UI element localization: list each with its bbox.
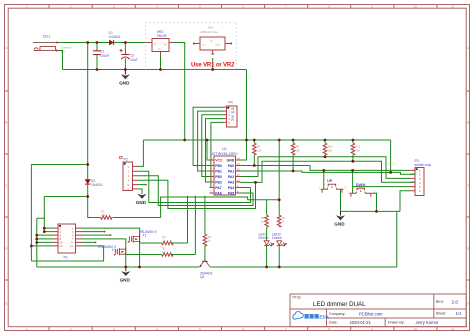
wire P1 pin6 to bus bbox=[37, 234, 53, 236]
svg-text:Green: Green bbox=[272, 236, 282, 240]
wire bottom rail right of Q1 bbox=[210, 266, 397, 268]
svg-text:R: R bbox=[231, 118, 234, 122]
svg-text:R7: R7 bbox=[101, 210, 105, 214]
wire D2 cathode down bbox=[87, 184, 89, 196]
svg-text:Connect?: Connect? bbox=[61, 46, 73, 50]
wire R2 to drop bbox=[171, 242, 187, 244]
wire P1 pin8 to bus bbox=[37, 238, 53, 240]
svg-text:TITLE:: TITLE: bbox=[292, 296, 302, 300]
svg-text:UP: UP bbox=[327, 178, 333, 183]
wire P2 pin5 stub bbox=[137, 184, 145, 186]
wire bus vertical x44 bbox=[43, 197, 45, 232]
svg-text:A: A bbox=[467, 46, 469, 50]
wire T1 gate line bbox=[140, 242, 162, 244]
wire P1 pin10 to bus bbox=[37, 241, 53, 243]
svg-text:R8: R8 bbox=[296, 145, 300, 149]
svg-text:P4: P4 bbox=[229, 101, 233, 105]
wire P2 pin4 wrap bbox=[137, 180, 256, 208]
svg-text:C1: C1 bbox=[100, 50, 104, 54]
connector P1 bbox=[53, 224, 82, 260]
wire wrap line A below U1 bbox=[161, 197, 280, 218]
svg-text:LED dimmer DUAL: LED dimmer DUAL bbox=[313, 301, 366, 308]
svg-text:P2: P2 bbox=[124, 157, 128, 161]
wire P1 pin4 to bus bbox=[44, 231, 52, 233]
svg-text:100: 100 bbox=[101, 213, 106, 217]
wire P1 pin9 stub bbox=[81, 241, 95, 243]
wire DC1 minus drop to ground rail bbox=[57, 51, 63, 70]
svg-text:PB1: PB1 bbox=[215, 169, 222, 173]
wire P4 pin1 to U1 PB0 bbox=[193, 107, 224, 165]
svg-text:PB0: PB0 bbox=[215, 164, 222, 168]
svg-text:R3: R3 bbox=[162, 247, 166, 251]
wire button ground run bbox=[341, 210, 401, 212]
svg-text:2.0: 2.0 bbox=[452, 300, 459, 305]
svg-text:D: D bbox=[467, 247, 469, 251]
capacitor C2 10uF polarized bbox=[120, 43, 138, 70]
resistor R6 bbox=[277, 215, 285, 227]
svg-text:100nF: 100nF bbox=[100, 54, 110, 58]
svg-text:R6: R6 bbox=[282, 216, 286, 220]
svg-text:1/1: 1/1 bbox=[456, 311, 462, 316]
svg-text:ATTINY84-20PU: ATTINY84-20PU bbox=[212, 152, 238, 156]
wire Q1 base drop bbox=[204, 196, 206, 234]
connector P3 switch exp bbox=[410, 159, 431, 196]
wire left feed at 164 bbox=[31, 164, 87, 166]
resistor R5 bbox=[261, 215, 268, 227]
ground symbol under P2 bbox=[136, 194, 147, 205]
wire P1 pin3 stub bbox=[81, 231, 104, 233]
wire P3 pin6 to ground run bbox=[400, 191, 410, 212]
svg-text:12: 12 bbox=[59, 244, 63, 248]
wire P1 pin11 to bottom loop bbox=[81, 245, 104, 247]
wire frame tick marks top bbox=[49, 5, 437, 9]
svg-text:10: 10 bbox=[414, 327, 418, 331]
svg-text:G: G bbox=[211, 39, 213, 43]
wire raw 12V drop to D2 bbox=[87, 43, 89, 180]
ground symbol under T2 bbox=[120, 267, 131, 282]
svg-text:GND: GND bbox=[119, 81, 130, 86]
wire LED riser 1 bbox=[266, 200, 268, 215]
svg-text:AMS1117-5.0a: AMS1117-5.0a bbox=[201, 30, 218, 34]
svg-text:G: G bbox=[159, 47, 161, 51]
svg-text:78L05: 78L05 bbox=[157, 34, 167, 38]
wire left bus vertical bbox=[30, 165, 32, 262]
wire rail end drop to P3 net bbox=[390, 140, 392, 172]
wire R3 to drop bbox=[171, 254, 195, 256]
resistor R7 bbox=[101, 210, 112, 220]
svg-text:U1: U1 bbox=[222, 147, 227, 151]
wire ground run to emitter rail bbox=[396, 211, 398, 267]
wire P4 pin3 to U1 PB3 bbox=[202, 115, 224, 177]
LED LED1 bbox=[264, 227, 274, 267]
svg-text:PA3: PA3 bbox=[228, 180, 234, 184]
svg-text:C: C bbox=[5, 184, 7, 188]
svg-text:Company:: Company: bbox=[329, 312, 345, 316]
wire P1 pin12 to bus bbox=[31, 245, 52, 247]
wire U1 PA2 net to P3 pin3 bbox=[241, 157, 411, 179]
svg-text:10uF: 10uF bbox=[130, 58, 138, 62]
svg-text:Drawn By:: Drawn By: bbox=[388, 321, 405, 325]
svg-text:R9: R9 bbox=[208, 235, 212, 239]
resistor R8 10k bbox=[291, 140, 300, 171]
switch UP bbox=[318, 178, 346, 193]
EasyEDA logo cloud bbox=[293, 312, 303, 320]
regulator VR2 78L05 bbox=[146, 30, 174, 56]
resistor R3 gate T2 bbox=[162, 247, 174, 257]
dashed selection box around regulators bbox=[146, 23, 237, 70]
svg-text:2020-01-21: 2020-01-21 bbox=[350, 320, 372, 325]
wire VR1 ground tail to rail bbox=[212, 58, 214, 70]
wire VR2 ground to rail bbox=[160, 56, 162, 70]
wire R7 to wrap riser bbox=[113, 217, 161, 219]
wire bus vertical x37 bbox=[36, 218, 38, 267]
svg-text:PA6: PA6 bbox=[215, 191, 221, 195]
svg-text:REV:: REV: bbox=[436, 300, 444, 304]
IC U1 ATTINY84-20PU bbox=[210, 147, 241, 195]
svg-text:10k: 10k bbox=[296, 148, 301, 152]
diode D2 1N4001 bbox=[85, 179, 103, 187]
switch DWN bbox=[347, 182, 375, 197]
wire T2 gate line bbox=[126, 254, 162, 256]
svg-text:C2: C2 bbox=[130, 53, 134, 57]
title block frame bbox=[290, 294, 466, 327]
svg-text:DC1: DC1 bbox=[43, 34, 50, 38]
wire UP right to ground run bbox=[340, 189, 342, 211]
svg-text:E: E bbox=[467, 302, 469, 306]
wire frame tick marks left bbox=[5, 91, 9, 280]
resistor R4 10k bbox=[253, 140, 262, 166]
wire DWN net to P3 pin5 bbox=[353, 186, 410, 188]
wire frame tick marks right bbox=[466, 91, 469, 280]
svg-text:PB2: PB2 bbox=[215, 180, 222, 184]
capacitor C1 100nF bbox=[93, 43, 110, 70]
wire 196 link bbox=[44, 196, 87, 198]
wire DC1 plus to D1 anode bbox=[57, 42, 109, 44]
transistor Q1 2N4401 bbox=[199, 261, 212, 279]
svg-text:PB3: PB3 bbox=[215, 175, 222, 179]
svg-text:R10: R10 bbox=[328, 145, 333, 149]
diode D1 1N4001 bbox=[109, 31, 121, 45]
wire P4 pin2 to U1 PB1 bbox=[198, 111, 224, 171]
svg-text:VCC: VCC bbox=[215, 158, 223, 162]
wire P4 pin4 to U1 PB2 bbox=[206, 119, 224, 182]
svg-text:PA1: PA1 bbox=[228, 169, 234, 173]
wire P2 pin3 wrap to U1 PA5 bbox=[137, 176, 253, 206]
ground symbol under buttons bbox=[334, 211, 345, 226]
svg-text:Out: Out bbox=[216, 42, 220, 46]
wire VCC rail to U1 VCC bbox=[207, 140, 210, 160]
wire T1 source to rail bbox=[139, 243, 141, 267]
wire ground rail drop to U1 GND bbox=[241, 70, 247, 161]
svg-text:E: E bbox=[5, 302, 7, 306]
wire U1 PA3 net to P3 pin4 bbox=[241, 161, 416, 182]
svg-text:Sheet:: Sheet: bbox=[436, 312, 446, 316]
svg-text:C: C bbox=[467, 184, 469, 188]
wire DWN right to ground run bbox=[372, 193, 376, 211]
wire VCC rail bbox=[143, 139, 390, 141]
wire P2 pin2 wrap to U1 PA4 bbox=[137, 171, 251, 202]
svg-text:B: B bbox=[5, 121, 7, 125]
wire P1 pin1 to T1 drain bbox=[81, 228, 140, 235]
svg-text:PA7: PA7 bbox=[215, 186, 221, 190]
resistor R9 bbox=[203, 234, 211, 246]
title block divider lines bbox=[290, 294, 466, 327]
wire D2 to R7 bbox=[88, 197, 101, 218]
wire frame tick marks bottom bbox=[49, 327, 437, 331]
wire P4 pin5 to U1 PA7 bbox=[210, 122, 224, 187]
svg-text:T1: T1 bbox=[143, 233, 147, 237]
svg-text:GND: GND bbox=[120, 277, 131, 282]
LED LED2 bbox=[277, 241, 287, 267]
wire U1 PA4 stub to wrap bbox=[241, 187, 251, 189]
EasyEDA logo text bbox=[305, 314, 309, 319]
svg-text:R2: R2 bbox=[162, 235, 166, 239]
wire T1 gate drop bbox=[187, 196, 189, 243]
wire VR2 output to VCC rail drop bbox=[174, 43, 185, 141]
svg-text:10k: 10k bbox=[356, 148, 361, 152]
wire ground rail top bbox=[63, 69, 247, 71]
svg-text:D: D bbox=[5, 247, 7, 251]
resistor R2 gate T1 bbox=[162, 235, 174, 245]
wire P1 pin5 stub bbox=[81, 234, 110, 236]
svg-text:R11: R11 bbox=[356, 145, 361, 149]
svg-text:10k: 10k bbox=[257, 148, 262, 152]
svg-text:Q1: Q1 bbox=[200, 275, 205, 279]
wire U1 PA0 net to P3 pin1 bbox=[241, 166, 411, 171]
connector DC1 bbox=[33, 34, 72, 53]
svg-text:VR1: VR1 bbox=[208, 26, 214, 30]
resistor R10 10k bbox=[323, 140, 333, 157]
svg-text:1N4001: 1N4001 bbox=[91, 183, 103, 187]
wire T2 source to rail bbox=[125, 256, 127, 267]
node junction dots bbox=[86, 41, 89, 44]
svg-text:Use VR1 or VR2: Use VR1 or VR2 bbox=[191, 62, 235, 68]
svg-text:10: 10 bbox=[414, 5, 418, 9]
wire bottom loop bbox=[31, 246, 103, 261]
svg-text:11: 11 bbox=[451, 5, 454, 9]
connector P2 ISP bbox=[120, 157, 138, 192]
svg-text:11: 11 bbox=[70, 244, 73, 248]
svg-text:P1: P1 bbox=[64, 256, 68, 260]
wire D1 cathode to VR2 input bbox=[114, 42, 146, 44]
svg-text:Date:: Date: bbox=[329, 321, 338, 325]
svg-text:R5: R5 bbox=[261, 216, 265, 220]
svg-text:R4: R4 bbox=[257, 145, 261, 149]
wire DWN left to pullup net bbox=[352, 170, 354, 193]
wire P1 pin7 to T2 drain bbox=[81, 239, 126, 247]
wire bus stub 218 bbox=[37, 217, 45, 219]
svg-text:PA0: PA0 bbox=[228, 164, 234, 168]
svg-text:PA5: PA5 bbox=[228, 191, 234, 195]
svg-text:switch exp: switch exp bbox=[415, 163, 432, 167]
resistor R11 10k bbox=[351, 140, 361, 162]
svg-text:10k: 10k bbox=[328, 148, 333, 152]
transistor T1 IRL540N bbox=[128, 230, 157, 243]
svg-text:T2: T2 bbox=[112, 249, 116, 253]
svg-text:GND: GND bbox=[227, 158, 235, 162]
ground symbol under C2 bbox=[119, 70, 130, 86]
svg-text:P3: P3 bbox=[415, 159, 419, 163]
wire U1 PA1 net to P3 pin2 bbox=[241, 171, 416, 174]
svg-text:Jerry Komor: Jerry Komor bbox=[416, 320, 439, 325]
connector P4 bbox=[224, 101, 237, 127]
transistor T2 IRL540N bbox=[98, 245, 125, 256]
wire R9 to Q1 base bbox=[204, 246, 206, 262]
svg-text:PCBhut.com: PCBhut.com bbox=[359, 311, 383, 316]
wire LED riser 2 bbox=[278, 140, 280, 215]
wire P2 pin1 to VCC rail bbox=[137, 140, 143, 166]
wire P2 pin6 to ground bbox=[137, 189, 142, 194]
svg-text:GND: GND bbox=[136, 200, 147, 205]
svg-text:1N4001: 1N4001 bbox=[109, 35, 121, 39]
wire bottom rail left of Q1 bbox=[37, 266, 199, 268]
regulator VR1 AMS1117-5.0 (unused alternative) bbox=[193, 26, 232, 54]
wire UP left to pullup net bbox=[323, 170, 325, 189]
wire T2 gate drop bbox=[194, 196, 196, 255]
svg-text:PA4: PA4 bbox=[228, 186, 234, 190]
svg-text:11: 11 bbox=[451, 327, 454, 331]
svg-text:A: A bbox=[5, 46, 7, 50]
svg-text:PA2: PA2 bbox=[228, 175, 234, 179]
wire P1 pin2 to bus bbox=[44, 227, 52, 229]
svg-text:GND: GND bbox=[334, 222, 345, 227]
svg-text:B: B bbox=[467, 121, 469, 125]
svg-text:DWN: DWN bbox=[356, 182, 366, 187]
svg-text:EDA: EDA bbox=[319, 315, 329, 320]
